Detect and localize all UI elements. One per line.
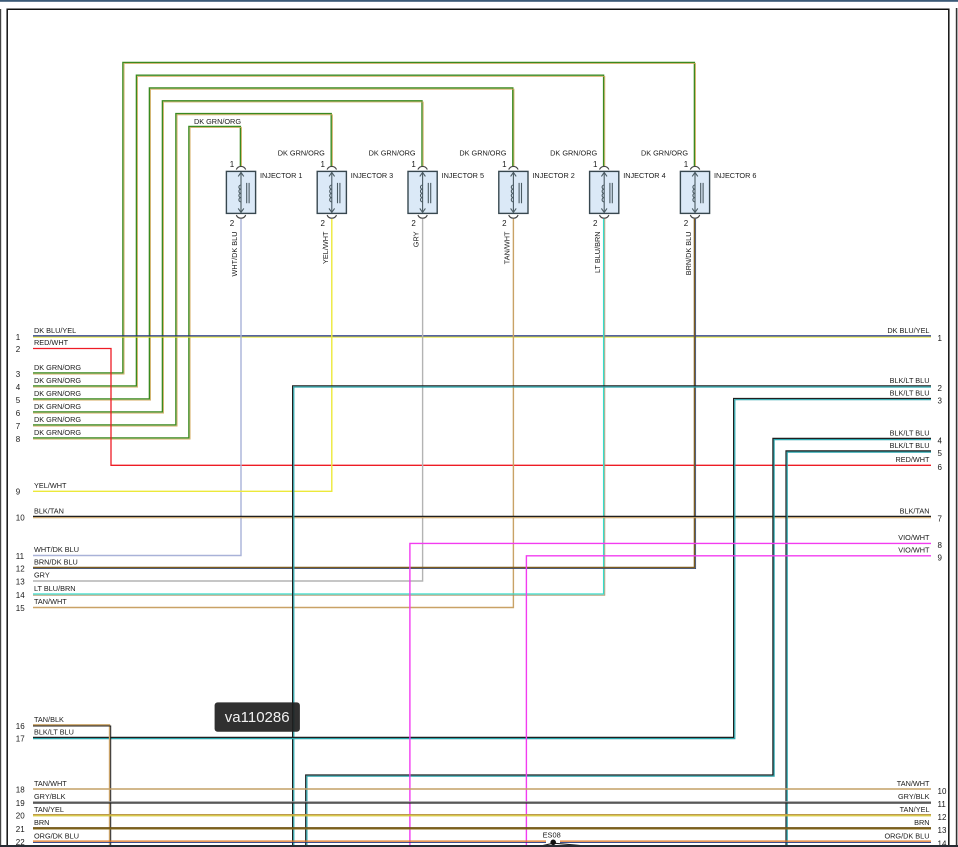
svg-text:TAN/WHT: TAN/WHT [897,779,930,788]
svg-text:GRY/BLK: GRY/BLK [34,792,66,801]
svg-text:9: 9 [938,553,943,562]
svg-text:13: 13 [938,826,947,835]
svg-text:RED/WHT: RED/WHT [895,455,930,464]
svg-text:INJECTOR 1: INJECTOR 1 [260,171,302,180]
svg-text:9: 9 [16,488,21,497]
svg-text:7: 7 [16,422,21,431]
svg-text:VIO/WHT: VIO/WHT [898,545,930,554]
svg-text:DK GRN/ORG: DK GRN/ORG [34,428,81,437]
svg-text:19: 19 [16,799,25,808]
svg-text:TAN/YEL: TAN/YEL [34,805,64,814]
svg-text:DK BLU/YEL: DK BLU/YEL [34,326,76,335]
svg-text:13: 13 [16,577,25,586]
svg-text:1: 1 [230,160,235,169]
svg-text:5: 5 [938,449,943,458]
svg-text:17: 17 [16,734,25,743]
svg-text:GRY: GRY [34,571,50,580]
svg-text:6: 6 [938,463,943,472]
svg-text:6: 6 [16,409,21,418]
svg-text:YEL/WHT: YEL/WHT [321,231,330,264]
svg-text:BLK/LT BLU: BLK/LT BLU [890,441,930,450]
svg-text:11: 11 [16,552,25,561]
svg-text:YEL/WHT: YEL/WHT [34,481,67,490]
svg-text:WHT/DK BLU: WHT/DK BLU [230,232,239,277]
svg-text:1: 1 [938,334,943,343]
svg-text:BRN/DK BLU: BRN/DK BLU [684,232,693,276]
svg-text:5: 5 [16,396,21,405]
svg-text:DK GRN/ORG: DK GRN/ORG [34,363,81,372]
svg-text:GRY/BLK: GRY/BLK [898,792,930,801]
svg-text:4: 4 [938,437,943,446]
svg-text:va110286: va110286 [225,709,290,726]
svg-text:BRN: BRN [34,818,49,827]
svg-text:12: 12 [938,813,947,822]
svg-text:8: 8 [16,435,21,444]
svg-text:ORG/DK BLU: ORG/DK BLU [884,831,929,840]
svg-text:INJECTOR 5: INJECTOR 5 [442,171,484,180]
svg-text:2: 2 [938,384,943,393]
svg-text:11: 11 [938,800,947,809]
svg-text:16: 16 [16,722,25,731]
svg-text:BRN/DK BLU: BRN/DK BLU [34,558,78,567]
svg-text:INJECTOR 3: INJECTOR 3 [351,171,393,180]
svg-text:1: 1 [411,160,416,169]
svg-text:2: 2 [230,219,235,228]
svg-text:1: 1 [16,333,21,342]
svg-text:TAN/WHT: TAN/WHT [34,779,67,788]
svg-text:RED/WHT: RED/WHT [34,338,69,347]
svg-text:BLK/LT BLU: BLK/LT BLU [890,389,930,398]
svg-text:2: 2 [684,219,689,228]
svg-text:BLK/LT BLU: BLK/LT BLU [890,376,930,385]
svg-text:20: 20 [16,812,25,821]
svg-text:10: 10 [16,513,25,522]
svg-text:DK GRN/ORG: DK GRN/ORG [550,149,597,158]
svg-text:2: 2 [593,219,598,228]
svg-text:4: 4 [16,383,21,392]
svg-text:INJECTOR 2: INJECTOR 2 [532,171,574,180]
svg-text:12: 12 [16,564,25,573]
svg-text:GRY: GRY [412,231,421,247]
svg-text:2: 2 [16,345,21,354]
svg-text:1: 1 [502,160,507,169]
svg-text:1: 1 [321,160,326,169]
svg-text:DK GRN/ORG: DK GRN/ORG [369,149,416,158]
svg-text:LT BLU/BRN: LT BLU/BRN [593,232,602,274]
svg-text:8: 8 [938,541,943,550]
svg-text:VIO/WHT: VIO/WHT [898,533,930,542]
svg-text:TAN/BLK: TAN/BLK [34,715,64,724]
svg-text:3: 3 [16,370,21,379]
svg-text:18: 18 [16,786,25,795]
svg-text:1: 1 [593,160,598,169]
svg-text:LT BLU/BRN: LT BLU/BRN [34,584,76,593]
svg-text:ES08: ES08 [543,831,561,840]
svg-text:2: 2 [411,219,416,228]
svg-text:TAN/YEL: TAN/YEL [900,805,930,814]
svg-text:10: 10 [938,787,947,796]
svg-text:DK GRN/ORG: DK GRN/ORG [459,149,506,158]
svg-text:INJECTOR 6: INJECTOR 6 [714,171,756,180]
svg-text:BRN: BRN [914,818,929,827]
svg-text:2: 2 [502,219,507,228]
svg-text:7: 7 [938,515,943,524]
svg-text:BLK/TAN: BLK/TAN [34,507,64,516]
svg-text:2: 2 [321,219,326,228]
svg-text:TAN/WHT: TAN/WHT [502,231,511,264]
svg-text:BLK/TAN: BLK/TAN [900,507,930,516]
svg-text:DK GRN/ORG: DK GRN/ORG [34,415,81,424]
svg-text:INJECTOR 4: INJECTOR 4 [623,171,665,180]
svg-text:3: 3 [938,397,943,406]
svg-text:14: 14 [16,591,25,600]
svg-text:BLK/LT BLU: BLK/LT BLU [34,728,74,737]
svg-text:ORG/DK BLU: ORG/DK BLU [34,831,79,840]
svg-text:BLK/LT BLU: BLK/LT BLU [890,429,930,438]
svg-text:DK GRN/ORG: DK GRN/ORG [34,402,81,411]
svg-text:WHT/DK BLU: WHT/DK BLU [34,545,79,554]
svg-text:15: 15 [16,604,25,613]
svg-text:DK BLU/YEL: DK BLU/YEL [887,326,929,335]
svg-text:DK GRN/ORG: DK GRN/ORG [194,117,241,126]
svg-text:DK GRN/ORG: DK GRN/ORG [278,149,325,158]
svg-text:1: 1 [684,160,689,169]
svg-text:21: 21 [16,825,25,834]
svg-text:DK GRN/ORG: DK GRN/ORG [34,389,81,398]
svg-text:DK GRN/ORG: DK GRN/ORG [641,149,688,158]
svg-text:DK GRN/ORG: DK GRN/ORG [34,376,81,385]
svg-text:TAN/WHT: TAN/WHT [34,597,67,606]
